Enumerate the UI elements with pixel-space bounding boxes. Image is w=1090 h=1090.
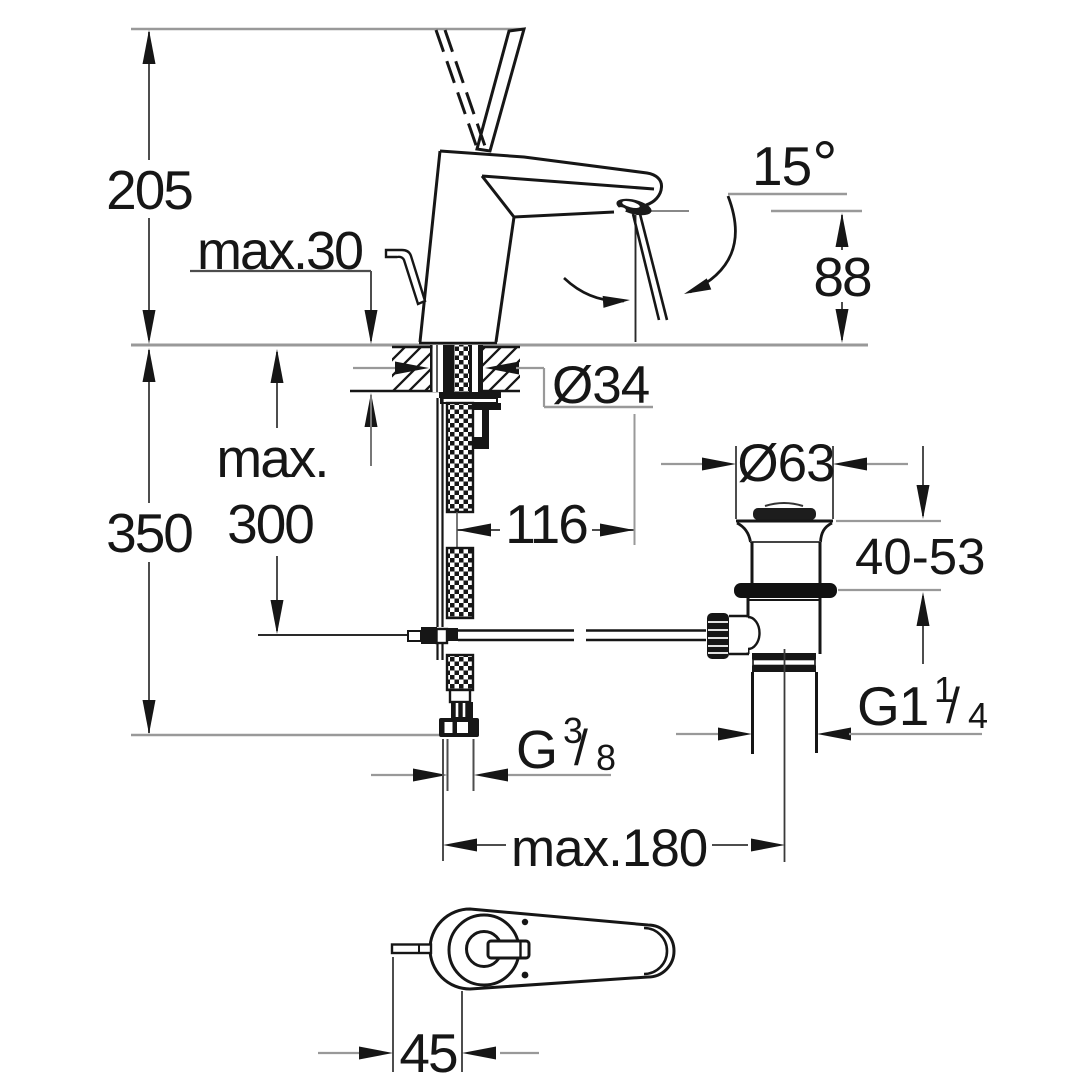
svg-text:8: 8	[596, 737, 616, 778]
drain flange neck	[737, 523, 751, 542]
mounting flange nut below deck	[439, 392, 501, 398]
hose connection nut G3/8	[439, 718, 479, 737]
water jet	[633, 214, 659, 320]
plan view: lever tip inner arc	[644, 928, 667, 974]
hose ribbed section	[451, 702, 473, 718]
top extent line (handle max height)	[131, 28, 523, 31]
dimension O63	[661, 434, 908, 519]
aerator at spout tip	[615, 196, 653, 219]
drain tailpipe	[751, 672, 754, 754]
svg-text:350: 350	[106, 502, 192, 564]
dimension G3/8	[371, 710, 616, 791]
threaded shank through deck	[430, 345, 483, 392]
deck hatched block right	[483, 347, 520, 392]
svg-text:116: 116	[505, 493, 587, 555]
svg-text:max.: max.	[216, 427, 327, 489]
plan view: lever stub	[488, 941, 529, 958]
svg-text:40-53: 40-53	[855, 528, 985, 585]
faucet body	[420, 151, 662, 342]
ball joint socket arc	[748, 617, 760, 649]
drain lower collar	[752, 653, 816, 660]
vertical pull rod	[438, 398, 443, 660]
drain rubber gasket	[734, 583, 837, 598]
deck hatched block left	[392, 347, 430, 392]
svg-text:Ø63: Ø63	[737, 434, 834, 493]
dimension O34	[353, 356, 653, 415]
small swivel arc arrow	[564, 278, 630, 308]
drain flange top	[736, 520, 833, 523]
svg-text:15°: 15°	[752, 129, 836, 199]
counter top line	[131, 344, 868, 347]
drain pop-up waste: plug cap	[765, 503, 803, 506]
deck bottom edge	[350, 390, 520, 393]
ball joint neck	[729, 618, 748, 653]
dimension max.300	[216, 349, 408, 635]
faucet handle (dashed alternate position)	[436, 30, 486, 149]
dimension G1 1/4	[676, 669, 988, 741]
angle arc arrow (15 deg sweep)	[682, 196, 736, 300]
plan view: cartridge circle	[467, 932, 502, 967]
knurled adjustment knob	[707, 613, 729, 659]
dimension 350	[106, 348, 192, 734]
horizontal pop-up rod to drain	[458, 631, 706, 641]
hose break line	[456, 512, 458, 548]
faucet base edge on counter	[419, 342, 497, 344]
plan view: lever handle outline	[430, 909, 674, 989]
svg-text:4: 4	[968, 695, 988, 736]
pop-up pull rod handle at back of faucet	[386, 250, 425, 304]
svg-text:/: /	[574, 720, 588, 776]
svg-text:G: G	[516, 720, 557, 780]
flexible hose upper section	[447, 403, 473, 512]
dimension 116	[457, 414, 635, 555]
svg-text:205: 205	[106, 159, 192, 221]
plan view: escutcheon circle	[449, 915, 519, 985]
350 bottom extent line	[131, 734, 439, 737]
dimension 88	[813, 213, 871, 343]
faucet handle (solid position)	[477, 29, 524, 151]
svg-text:Ø34: Ø34	[552, 356, 649, 415]
plan view: screw dots	[522, 919, 528, 925]
pop-up rod tick line (max.300 extent) drawn above; rod connector	[408, 627, 458, 644]
drain body	[747, 598, 750, 654]
dimension max.180	[443, 739, 785, 878]
dimension 45	[318, 957, 539, 1084]
plan view: pull rod pin	[392, 945, 431, 954]
water stream vertical reference line	[635, 215, 637, 342]
svg-text:45: 45	[399, 1022, 457, 1084]
svg-text:/: /	[946, 678, 960, 734]
flexible hose middle section	[447, 548, 473, 618]
deck top edge	[392, 346, 520, 348]
svg-text:max.180: max.180	[511, 819, 707, 878]
mounting bracket	[470, 403, 501, 449]
15deg leader line	[728, 193, 847, 195]
flexible hose lower section	[447, 655, 473, 690]
spout outlet reference line	[646, 210, 689, 212]
hose ferrule	[450, 690, 470, 702]
88 top tick line	[771, 210, 862, 212]
svg-text:300: 300	[227, 493, 313, 555]
svg-text:G1: G1	[857, 675, 928, 737]
dimension 205	[106, 30, 192, 344]
dimension max.30	[190, 221, 378, 466]
drain centerline	[784, 649, 786, 862]
dimension 40-53	[836, 446, 985, 664]
svg-text:88: 88	[813, 246, 871, 308]
